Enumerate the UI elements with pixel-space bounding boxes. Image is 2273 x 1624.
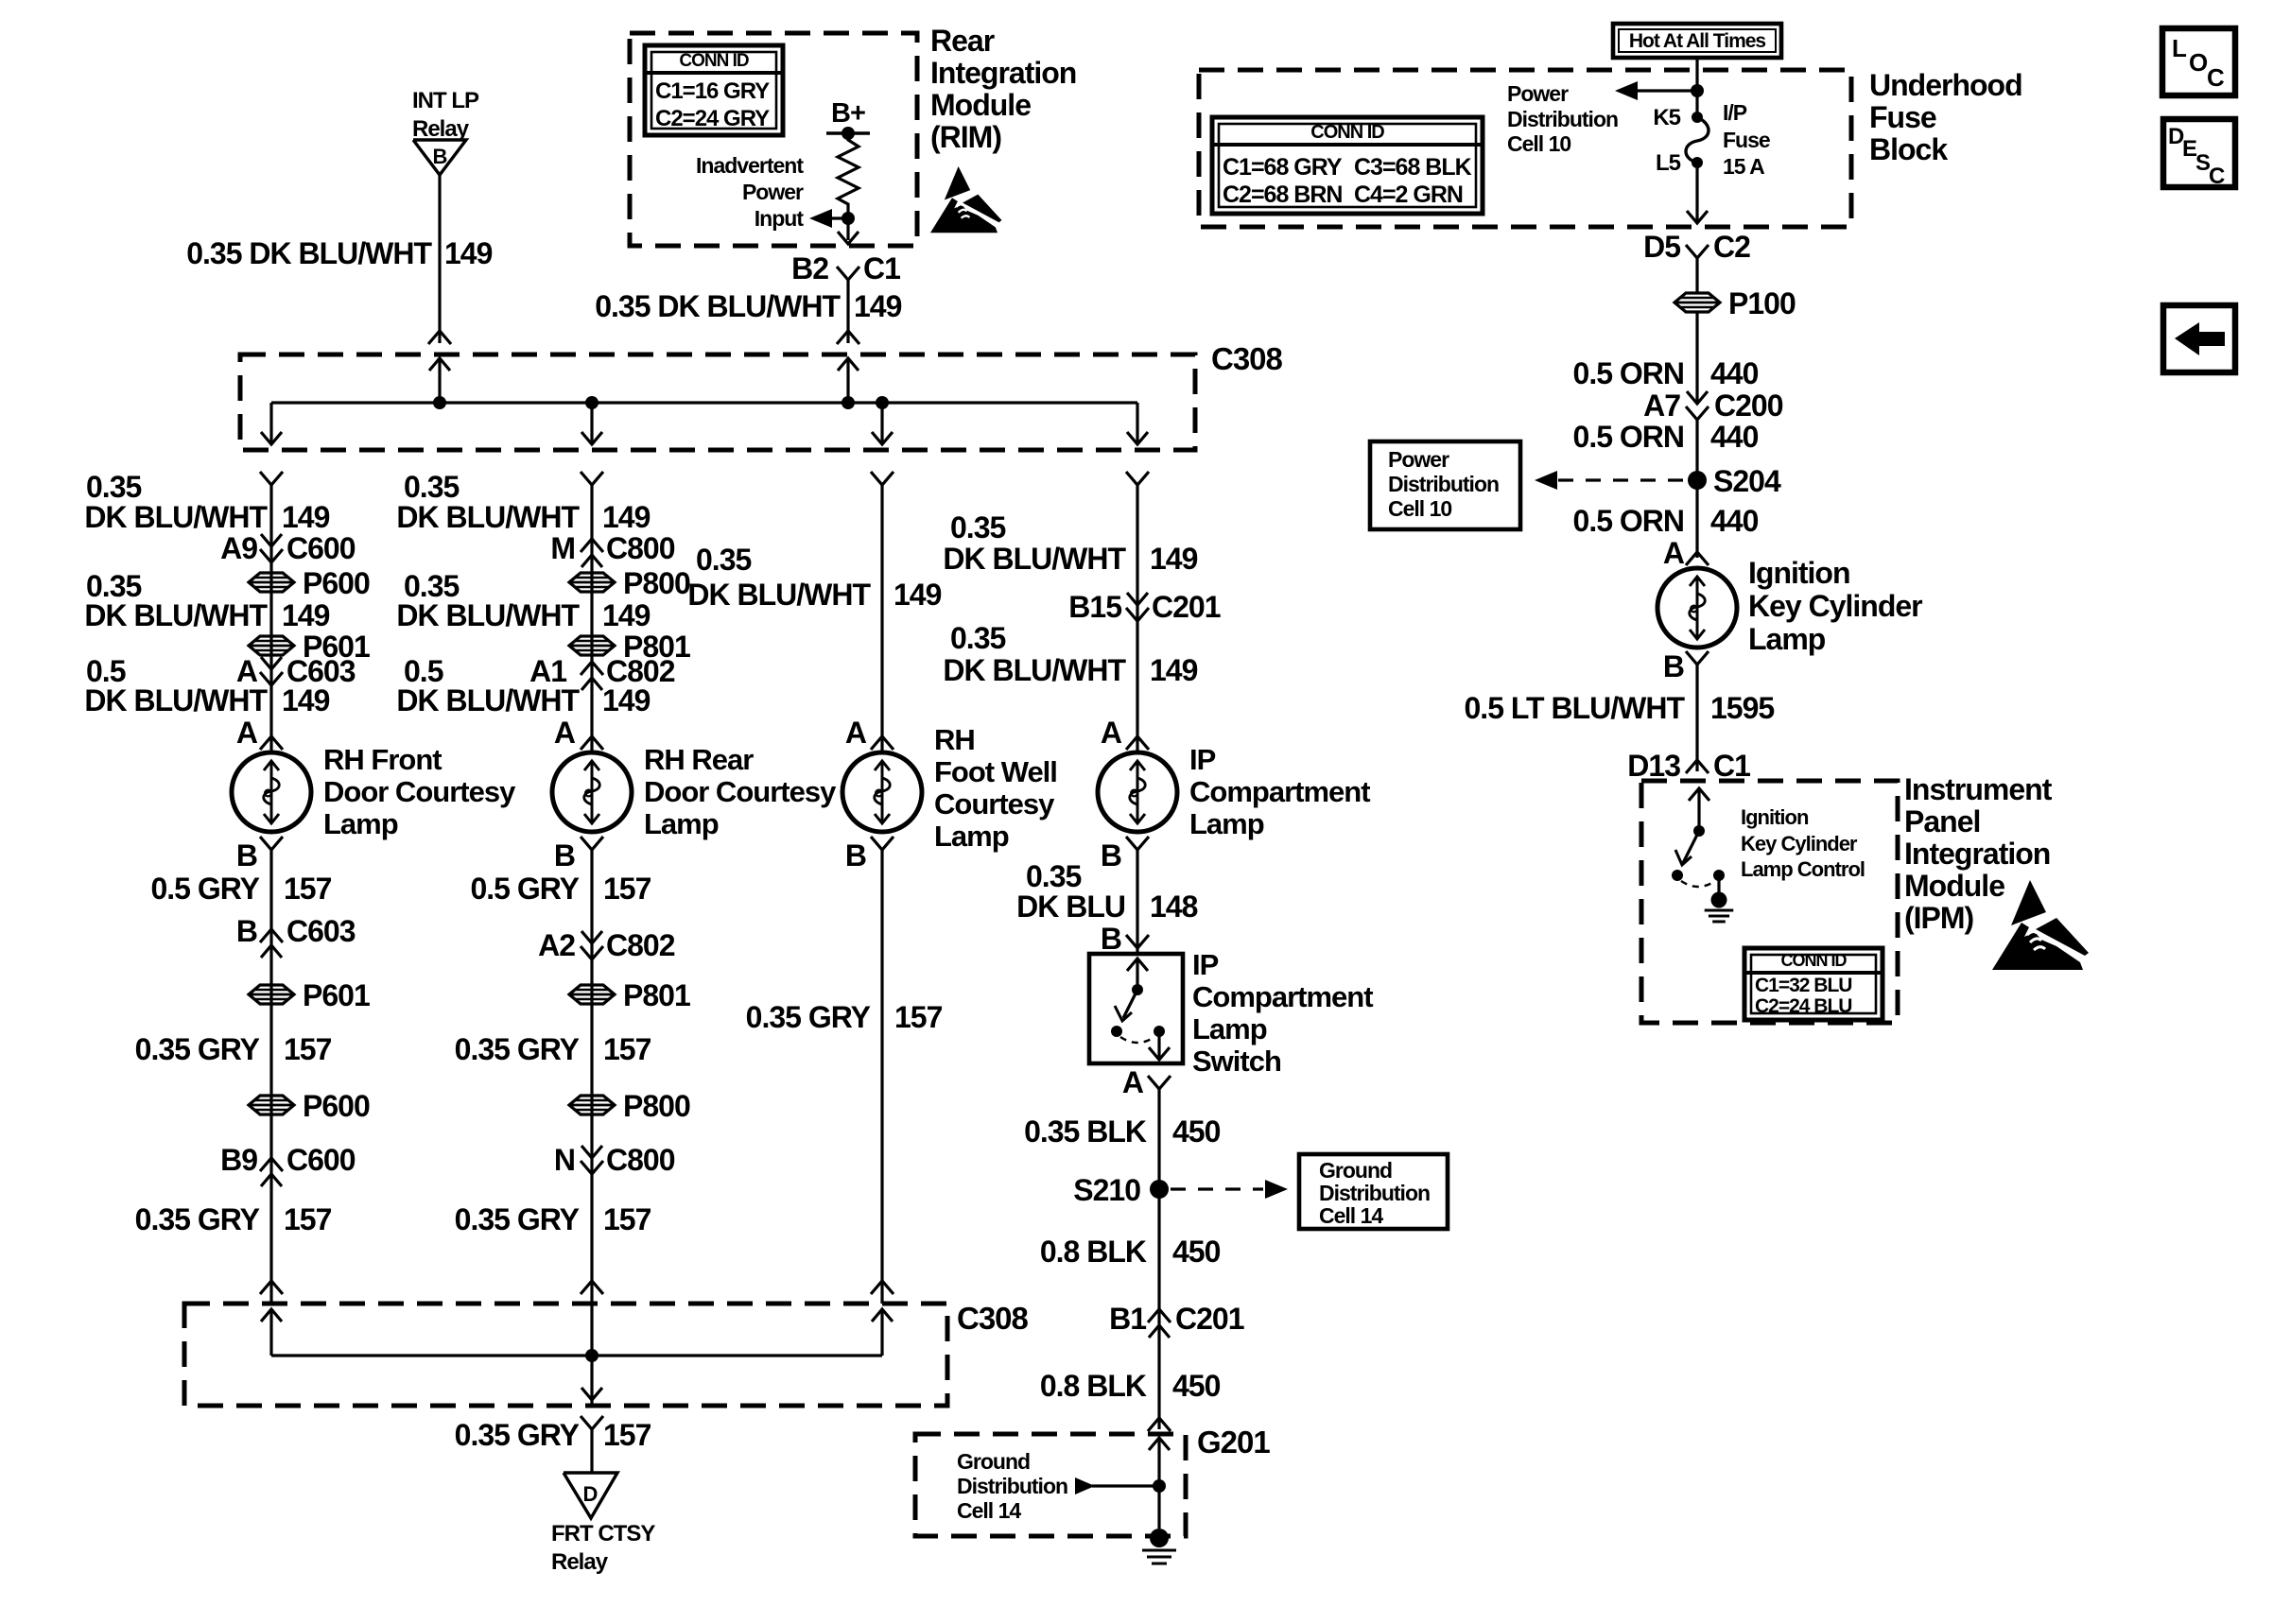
svg-text:D: D: [583, 1482, 598, 1506]
svg-text:B: B: [433, 145, 447, 168]
IP Compartment Lamp: [1098, 752, 1177, 832]
svg-text:A: A: [236, 716, 258, 750]
svg-text:450: 450: [1172, 1114, 1221, 1149]
svg-text:157: 157: [603, 1032, 651, 1066]
svg-text:Ground: Ground: [957, 1449, 1030, 1474]
svg-text:L: L: [2172, 34, 2187, 62]
svg-text:15 A: 15 A: [1723, 154, 1764, 179]
svg-text:CONN ID: CONN ID: [679, 51, 749, 71]
svg-text:C1: C1: [863, 251, 900, 285]
ground inside IPM: [1711, 892, 1727, 908]
column C wire: [880, 485, 883, 752]
svg-text:P601: P601: [303, 978, 370, 1012]
svg-text:DK BLU/WHT: DK BLU/WHT: [687, 578, 871, 612]
svg-text:C4=2 GRN: C4=2 GRN: [1354, 181, 1463, 208]
svg-text:157: 157: [284, 1202, 332, 1236]
svg-text:0.5 ORN: 0.5 ORN: [1573, 504, 1684, 538]
svg-text:Key Cylinder: Key Cylinder: [1741, 832, 1858, 855]
connector half at C308 top (RIM branch): [837, 331, 859, 344]
svg-text:0.35 GRY: 0.35 GRY: [455, 1202, 580, 1236]
svg-text:0.35: 0.35: [696, 543, 751, 577]
svg-text:Instrument: Instrument: [1904, 772, 2053, 806]
svg-text:A: A: [1101, 716, 1122, 750]
svg-text:Input: Input: [755, 206, 805, 231]
svg-text:A7: A7: [1643, 389, 1680, 423]
wire switch A down to G201: [1157, 1089, 1160, 1429]
svg-text:Lamp Control: Lamp Control: [1741, 857, 1865, 881]
svg-text:Cell 14: Cell 14: [1319, 1203, 1383, 1228]
wire lamp B down: [269, 850, 272, 1304]
svg-text:149: 149: [444, 236, 493, 270]
svg-text:L5: L5: [1656, 150, 1681, 176]
svg-text:Ignition: Ignition: [1741, 805, 1809, 829]
wire RIM to C308: [846, 280, 849, 343]
svg-text:Distribution: Distribution: [1388, 472, 1499, 496]
wire into fuse block: [1695, 58, 1698, 117]
svg-text:149: 149: [602, 683, 651, 717]
svg-text:0.35: 0.35: [86, 470, 141, 504]
svg-text:0.35 GRY: 0.35 GRY: [135, 1202, 260, 1236]
svg-text:D13: D13: [1627, 749, 1680, 783]
svg-text:440: 440: [1710, 420, 1759, 454]
svg-text:Switch: Switch: [1192, 1045, 1281, 1078]
svg-text:S210: S210: [1073, 1173, 1140, 1207]
svg-text:C308: C308: [1211, 341, 1283, 376]
svg-text:157: 157: [603, 872, 651, 906]
branch drops to lamp circuits: [269, 403, 272, 444]
svg-text:Ignition: Ignition: [1748, 556, 1850, 590]
svg-text:B: B: [554, 838, 575, 872]
svg-text:C200: C200: [1714, 389, 1783, 423]
svg-text:DK BLU/WHT: DK BLU/WHT: [84, 500, 268, 534]
svg-text:C2=24 BLU: C2=24 BLU: [1755, 995, 1851, 1017]
svg-text:157: 157: [603, 1418, 651, 1452]
svg-text:Inadvertent: Inadvertent: [696, 153, 804, 178]
node at resistor bottom: [842, 212, 855, 225]
svg-text:IP: IP: [1189, 743, 1216, 776]
svg-text:(IPM): (IPM): [1904, 901, 1974, 935]
pass-through connector P800 (return): [569, 1096, 615, 1114]
wire lamp B to D13: [1695, 665, 1698, 771]
switch blade: [1123, 990, 1137, 1018]
svg-text:Cell 14: Cell 14: [957, 1498, 1021, 1523]
svg-text:B: B: [236, 914, 257, 948]
svg-text:Key Cylinder: Key Cylinder: [1748, 589, 1922, 623]
svg-text:I/P: I/P: [1723, 100, 1747, 125]
wire lamp B down through C308: [590, 850, 593, 1406]
svg-text:149: 149: [1150, 542, 1198, 576]
svg-text:C1: C1: [1713, 749, 1750, 783]
svg-text:A9: A9: [220, 531, 257, 565]
svg-text:157: 157: [284, 1032, 332, 1066]
svg-text:A: A: [554, 716, 576, 750]
svg-text:P801: P801: [623, 978, 690, 1012]
wire from INT LP relay to C308: [438, 175, 441, 343]
ground G201 symbol: [1150, 1529, 1169, 1547]
svg-text:B2: B2: [791, 251, 828, 285]
switch blade (ignition key cylinder lamp control): [1683, 831, 1699, 863]
svg-text:149: 149: [854, 289, 902, 323]
internal reference arrow: [1092, 1484, 1159, 1487]
switch contact right: [1713, 870, 1725, 881]
svg-text:Lamp: Lamp: [1189, 807, 1264, 840]
svg-text:C600: C600: [286, 531, 356, 565]
svg-text:DK BLU/WHT: DK BLU/WHT: [943, 653, 1126, 687]
column D wire: [1136, 485, 1138, 752]
svg-text:DK BLU/WHT: DK BLU/WHT: [84, 683, 268, 717]
svg-text:149: 149: [282, 598, 330, 632]
svg-text:Module: Module: [930, 88, 1031, 122]
junction to power distribution: [1691, 84, 1704, 97]
pass-through connector P100: [1674, 293, 1720, 312]
dashed throw arc: [1120, 1037, 1154, 1043]
ESD sensitivity symbol (RIM): [930, 166, 1001, 233]
svg-text:0.35 GRY: 0.35 GRY: [135, 1032, 260, 1066]
svg-text:149: 149: [602, 500, 651, 534]
svg-text:0.35: 0.35: [404, 470, 459, 504]
Ignition Key Cylinder Lamp: [1657, 568, 1737, 648]
resistor (inadvertent power pull-up): [838, 133, 859, 218]
svg-text:S204: S204: [1713, 464, 1781, 498]
I/P Fuse 15 A element: [1686, 117, 1709, 163]
svg-text:0.35 BLK: 0.35 BLK: [1024, 1114, 1147, 1149]
dashed throw arc: [1681, 881, 1715, 887]
svg-text:Integration: Integration: [1904, 837, 2050, 871]
svg-text:Lamp: Lamp: [1748, 622, 1826, 656]
svg-text:D5: D5: [1643, 230, 1680, 264]
svg-text:0.35 DK BLU/WHT: 0.35 DK BLU/WHT: [186, 236, 432, 270]
svg-text:B: B: [236, 838, 257, 872]
svg-text:Panel: Panel: [1904, 804, 1980, 838]
svg-text:157: 157: [603, 1202, 651, 1236]
svg-text:P600: P600: [303, 566, 370, 600]
svg-text:Ground: Ground: [1319, 1158, 1392, 1183]
switch input arrow: [1136, 959, 1138, 990]
switch contact left: [1111, 1026, 1122, 1037]
svg-text:B: B: [1101, 838, 1121, 872]
svg-text:C: C: [2209, 164, 2225, 189]
LOC icon: [2162, 28, 2235, 95]
svg-text:0.35: 0.35: [950, 621, 1005, 655]
back arrow icon: [2163, 305, 2235, 372]
Hot At All Times box: [1613, 24, 1781, 58]
svg-text:IP: IP: [1192, 948, 1219, 981]
wire to FRT CTSY relay: [590, 1429, 593, 1473]
wire P100 down: [1695, 312, 1698, 404]
svg-text:DK BLU/WHT: DK BLU/WHT: [84, 598, 268, 632]
Ground Distribution Cell 14 dashed box (G201): [915, 1434, 1186, 1536]
pass-through connector P600 (return): [249, 1096, 294, 1114]
arrow to Power Distribution Cell 10: [1636, 89, 1697, 92]
Ground Distribution Cell 14 box: [1299, 1154, 1448, 1229]
svg-text:Block: Block: [1869, 132, 1948, 166]
arrow to Inadvertent Power Input: [830, 216, 848, 219]
svg-text:A: A: [845, 716, 867, 750]
svg-text:0.35 DK BLU/WHT: 0.35 DK BLU/WHT: [595, 289, 841, 323]
svg-text:O: O: [2189, 48, 2208, 77]
svg-text:0.5 ORN: 0.5 ORN: [1573, 420, 1684, 454]
svg-text:DK BLU/WHT: DK BLU/WHT: [943, 542, 1126, 576]
svg-text:K5: K5: [1653, 105, 1680, 130]
svg-text:Door Courtesy: Door Courtesy: [644, 775, 837, 808]
wire C200 to S204: [1695, 420, 1698, 558]
relay triangle D (FRT CTSY Relay): [564, 1473, 617, 1518]
fuse block CONN ID table: [1212, 117, 1483, 214]
svg-text:P800: P800: [623, 566, 690, 600]
svg-text:C: C: [2207, 63, 2225, 92]
svg-text:0.8 BLK: 0.8 BLK: [1040, 1235, 1147, 1269]
column A wire: [269, 485, 272, 752]
svg-text:Lamp: Lamp: [644, 807, 719, 840]
svg-text:Hot At All Times: Hot At All Times: [1629, 30, 1766, 52]
wire right contact to ground: [1717, 875, 1720, 892]
RH Front Door Courtesy Lamp: [232, 752, 311, 832]
pass-through connector P801 (return): [569, 985, 615, 1004]
svg-text:CONN ID: CONN ID: [1310, 122, 1384, 143]
svg-text:Relay: Relay: [551, 1549, 609, 1575]
connector half at C308 bottom: [581, 1281, 603, 1294]
svg-text:P800: P800: [623, 1089, 690, 1123]
internal bus of C308: [271, 401, 1137, 404]
svg-text:A2: A2: [538, 928, 575, 962]
svg-text:B: B: [1101, 922, 1121, 956]
svg-text:0.35 GRY: 0.35 GRY: [746, 1000, 871, 1034]
svg-text:C2: C2: [1713, 230, 1750, 264]
svg-text:C603: C603: [286, 914, 356, 948]
connector C308 (bottom) dashed box: [184, 1304, 947, 1406]
internal bus of bottom C308: [271, 1354, 882, 1356]
svg-text:Distribution: Distribution: [1507, 107, 1618, 131]
arrow into G201: [1157, 1438, 1160, 1529]
svg-text:RH: RH: [934, 723, 975, 756]
wire lamp B to switch: [1136, 850, 1138, 954]
pass-through connector P601 (return): [249, 985, 294, 1004]
junction dots on bus: [433, 396, 446, 409]
dashed reference to Ground Distribution Cell 14: [1171, 1187, 1263, 1190]
svg-text:157: 157: [894, 1000, 943, 1034]
svg-text:Cell 10: Cell 10: [1388, 496, 1451, 521]
ESD sensitivity symbol (IPM): [1992, 880, 2089, 970]
switch pivot node: [1693, 825, 1705, 837]
svg-text:B: B: [1663, 649, 1684, 683]
svg-text:Door Courtesy: Door Courtesy: [323, 775, 516, 808]
svg-text:C800: C800: [606, 1143, 675, 1177]
connector half at C308 bottom: [260, 1281, 283, 1294]
wire to RIM pin B2 with arrowhead: [846, 218, 849, 240]
svg-text:Foot Well: Foot Well: [934, 755, 1057, 788]
svg-text:450: 450: [1172, 1235, 1221, 1269]
svg-text:Cell 10: Cell 10: [1507, 131, 1570, 156]
svg-text:157: 157: [284, 872, 332, 906]
svg-text:B+: B+: [831, 98, 865, 129]
pass-through connector P601: [249, 636, 294, 655]
svg-text:0.5 GRY: 0.5 GRY: [150, 872, 259, 906]
chevron below box col B: [581, 1416, 603, 1429]
switch output arrow: [1157, 1031, 1160, 1060]
svg-text:B9: B9: [220, 1143, 257, 1177]
svg-text:Integration: Integration: [930, 56, 1076, 90]
Rear Integration Module (RIM) dashed box: [630, 33, 917, 246]
Power Distribution Cell 10 box: [1370, 441, 1520, 529]
svg-text:C1=16 GRY: C1=16 GRY: [655, 78, 770, 104]
RH Rear Door Courtesy Lamp: [552, 752, 632, 832]
IPM CONN ID table: [1744, 948, 1883, 1020]
col B exit arrow: [581, 1388, 602, 1400]
column B wire: [590, 485, 593, 752]
pass-through connector P600: [249, 573, 294, 592]
svg-text:Lamp: Lamp: [1192, 1012, 1267, 1045]
Instrument Panel Integration Module dashed box: [1641, 781, 1898, 1023]
svg-text:0.8 BLK: 0.8 BLK: [1040, 1369, 1147, 1403]
svg-text:Lamp: Lamp: [323, 807, 398, 840]
svg-text:149: 149: [282, 683, 330, 717]
svg-text:C201: C201: [1152, 590, 1221, 624]
svg-text:C2=68 BRN: C2=68 BRN: [1223, 181, 1342, 208]
svg-text:M: M: [550, 531, 575, 565]
svg-text:0.35 GRY: 0.35 GRY: [455, 1418, 580, 1452]
svg-text:Power: Power: [1388, 447, 1449, 472]
svg-text:440: 440: [1710, 504, 1759, 538]
svg-text:0.5 ORN: 0.5 ORN: [1573, 356, 1684, 390]
svg-text:C1=32 BLU: C1=32 BLU: [1755, 975, 1851, 996]
svg-text:(RIM): (RIM): [930, 120, 1001, 154]
svg-text:149: 149: [1150, 653, 1198, 687]
connector half at C308 bottom: [871, 1281, 894, 1294]
svg-text:Underhood: Underhood: [1869, 68, 2022, 102]
Underhood Fuse Block dashed box: [1199, 70, 1851, 227]
svg-text:149: 149: [282, 500, 330, 534]
connector C308 (top) dashed box: [240, 354, 1195, 450]
svg-text:Power: Power: [1507, 81, 1569, 106]
svg-text:C2=24 GRY: C2=24 GRY: [655, 106, 770, 131]
svg-text:Distribution: Distribution: [957, 1474, 1067, 1498]
dashed reference to Power Distribution Cell 10: [1558, 478, 1686, 481]
svg-text:DK BLU/WHT: DK BLU/WHT: [396, 683, 580, 717]
RH Foot Well Courtesy Lamp: [842, 752, 922, 832]
svg-text:P600: P600: [303, 1089, 370, 1123]
wire lamp B down to C308: [880, 850, 883, 1304]
svg-text:C3=68 BLK: C3=68 BLK: [1354, 154, 1472, 181]
svg-text:Relay: Relay: [412, 116, 470, 142]
switch contact right: [1154, 1026, 1165, 1037]
arrows entering C308 from above: [438, 358, 441, 403]
switch pivot node: [1132, 984, 1143, 995]
arrows entering C308 bottom from above: [269, 1309, 272, 1356]
svg-text:148: 148: [1150, 890, 1198, 924]
DESC icon: [2163, 119, 2235, 187]
svg-text:A: A: [1122, 1065, 1144, 1099]
pass-through connector P801: [569, 636, 615, 655]
connector half at C308 top (INT LP branch): [428, 331, 451, 344]
svg-text:C600: C600: [286, 1143, 356, 1177]
svg-text:1595: 1595: [1710, 691, 1774, 725]
svg-text:0.35: 0.35: [950, 510, 1005, 544]
svg-text:Compartment: Compartment: [1192, 980, 1373, 1013]
wire out of fuse block with arrowhead: [1695, 163, 1698, 223]
svg-text:149: 149: [894, 578, 942, 612]
relay triangle B (INT LP Relay): [413, 140, 466, 175]
svg-text:Courtesy: Courtesy: [934, 787, 1055, 821]
junction dot col B: [585, 1349, 599, 1362]
switch contact left: [1672, 870, 1683, 881]
svg-text:A: A: [1663, 536, 1685, 570]
splice S204: [1688, 471, 1707, 490]
svg-text:Lamp: Lamp: [934, 820, 1009, 853]
svg-text:B: B: [845, 838, 866, 872]
svg-text:DK BLU: DK BLU: [1016, 890, 1125, 924]
svg-text:DK BLU/WHT: DK BLU/WHT: [396, 500, 580, 534]
svg-text:Module: Module: [1904, 869, 2004, 903]
pass-through connector P800: [569, 573, 615, 592]
RIM CONN ID table: [645, 45, 783, 135]
svg-text:Distribution: Distribution: [1319, 1181, 1430, 1205]
svg-text:B1: B1: [1109, 1302, 1146, 1336]
svg-text:DK BLU/WHT: DK BLU/WHT: [396, 598, 580, 632]
svg-text:N: N: [554, 1143, 575, 1177]
svg-text:C800: C800: [606, 531, 675, 565]
svg-text:CONN ID: CONN ID: [1781, 951, 1848, 970]
svg-text:0.5 GRY: 0.5 GRY: [470, 872, 579, 906]
svg-text:Rear: Rear: [930, 24, 995, 58]
svg-text:C201: C201: [1175, 1302, 1244, 1336]
svg-text:RH Rear: RH Rear: [644, 743, 754, 776]
IP Compartment Lamp Switch box: [1089, 954, 1183, 1063]
connector half at G201: [1148, 1418, 1171, 1431]
wire D5 to P100: [1695, 258, 1698, 293]
junction dot: [1153, 1479, 1166, 1493]
wire into IPM with arrowhead: [1697, 788, 1700, 831]
svg-text:450: 450: [1172, 1369, 1221, 1403]
svg-text:Power: Power: [742, 180, 804, 204]
svg-text:C308: C308: [957, 1301, 1029, 1336]
svg-text:Fuse: Fuse: [1869, 100, 1936, 134]
svg-text:G201: G201: [1197, 1425, 1270, 1460]
svg-text:INT LP: INT LP: [412, 88, 479, 113]
svg-text:Fuse: Fuse: [1723, 128, 1770, 152]
svg-text:FRT CTSY: FRT CTSY: [551, 1521, 655, 1546]
svg-text:C1=68 GRY: C1=68 GRY: [1223, 154, 1343, 181]
svg-text:0.5 LT BLU/WHT: 0.5 LT BLU/WHT: [1465, 691, 1686, 725]
svg-text:B15: B15: [1068, 590, 1121, 624]
svg-text:Compartment: Compartment: [1189, 775, 1370, 808]
svg-text:RH Front: RH Front: [323, 743, 442, 776]
svg-text:C802: C802: [606, 928, 675, 962]
svg-text:P100: P100: [1728, 286, 1796, 320]
svg-text:149: 149: [602, 598, 651, 632]
B+ terminal bar and node: [826, 131, 870, 134]
svg-text:0.35 GRY: 0.35 GRY: [455, 1032, 580, 1066]
svg-text:0.35: 0.35: [1026, 859, 1081, 893]
svg-text:440: 440: [1710, 356, 1759, 390]
